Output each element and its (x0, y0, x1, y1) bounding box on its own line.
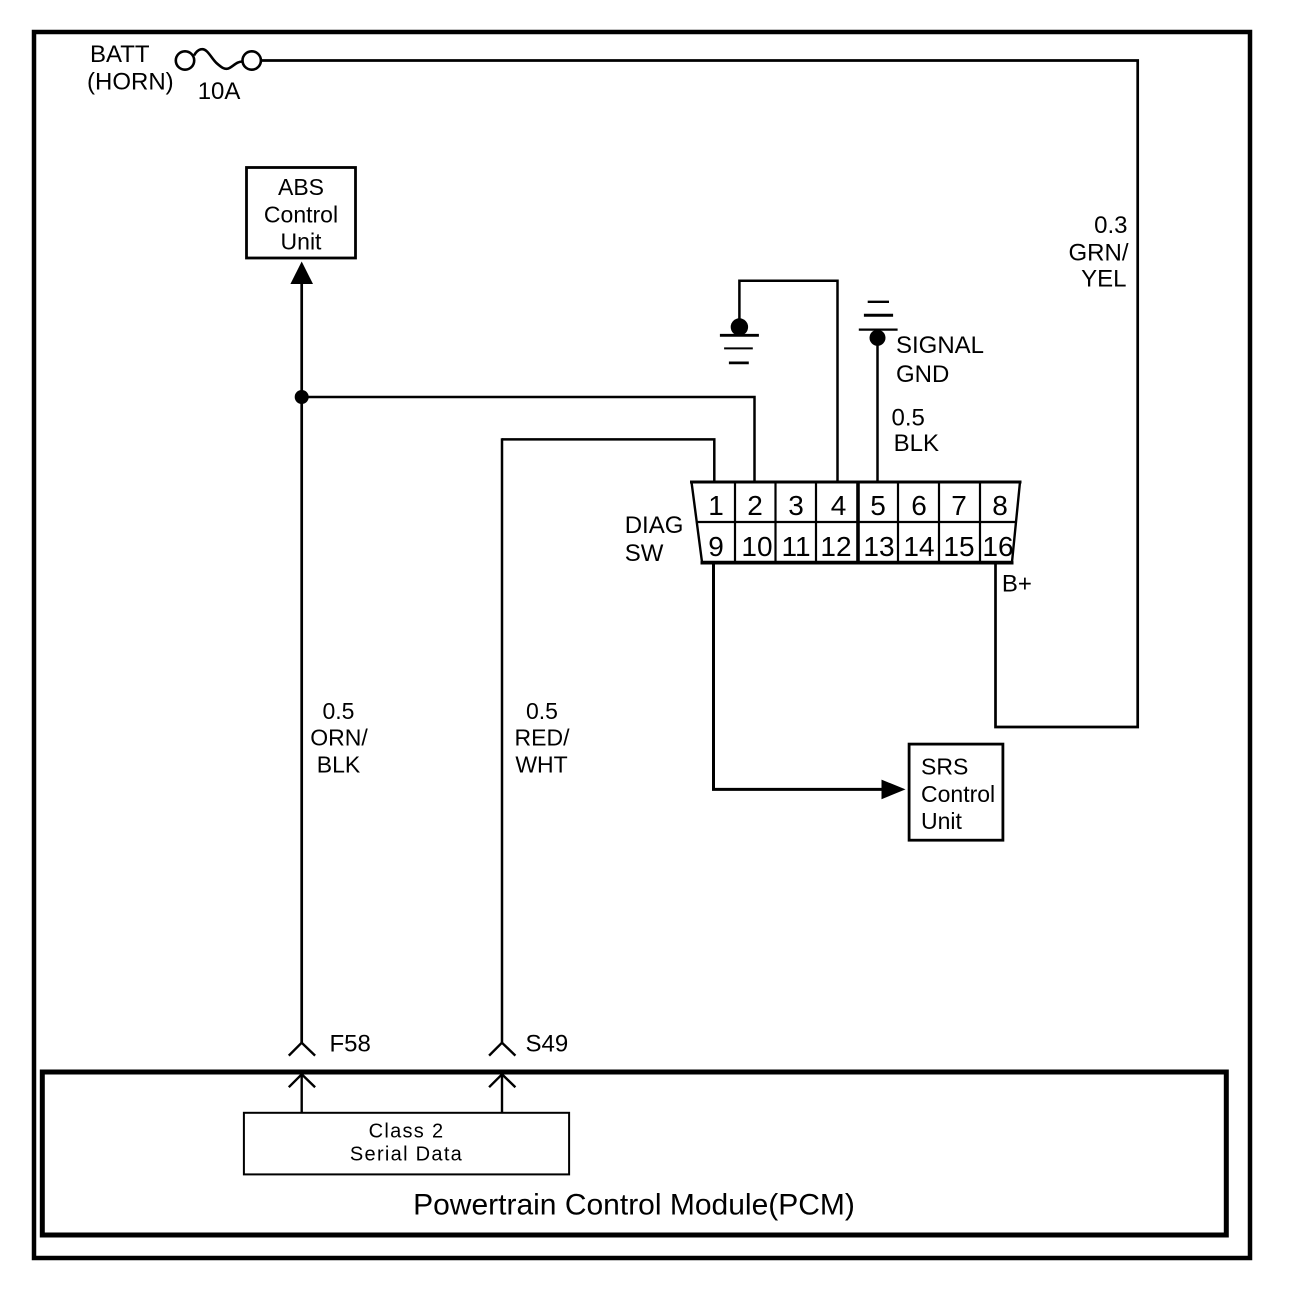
svg-text:BLK: BLK (894, 430, 939, 457)
svg-text:Serial Data: Serial Data (350, 1144, 463, 1166)
wire fuse to GRN/YEL down right side and to pin16 (B+) (261, 61, 1138, 728)
pin numbers 1-8 (708, 490, 1008, 521)
fuse F 10A (176, 49, 261, 70)
svg-text:7: 7 (951, 490, 967, 521)
label 0.5 ORN/BLK (310, 698, 368, 778)
PCM box (42, 1072, 1226, 1235)
Class 2 Serial Data box (244, 1113, 569, 1175)
svg-text:DIAG: DIAG (625, 512, 684, 539)
arrow into SRS (882, 780, 906, 800)
svg-text:9: 9 (708, 531, 724, 562)
svg-text:SIGNAL: SIGNAL (896, 332, 984, 359)
svg-text:Unit: Unit (921, 808, 963, 834)
svg-text:GND: GND (896, 361, 949, 388)
svg-text:ABS: ABS (278, 174, 324, 200)
svg-text:8: 8 (992, 490, 1008, 521)
svg-text:GRN/: GRN/ (1069, 240, 1129, 267)
svg-text:Powertrain Control Module(PCM): Powertrain Control Module(PCM) (413, 1189, 855, 1222)
svg-text:10A: 10A (198, 78, 241, 105)
svg-text:S49: S49 (526, 1031, 569, 1058)
svg-text:5: 5 (870, 490, 886, 521)
svg-text:B+: B+ (1002, 571, 1032, 598)
connector DLC trapezoid (690, 482, 1022, 563)
wire RED/WHT vertical (501, 438, 504, 1042)
ground G1 (720, 318, 759, 363)
svg-text:SRS: SRS (921, 753, 968, 779)
svg-text:SW: SW (625, 540, 664, 567)
svg-text:Control: Control (264, 201, 338, 227)
svg-text:12: 12 (820, 531, 851, 562)
wire junction to pin2 (302, 397, 755, 482)
connector S49 fork (489, 1043, 515, 1056)
svg-text:6: 6 (911, 490, 927, 521)
svg-text:16: 16 (982, 531, 1013, 562)
svg-text:13: 13 (863, 531, 894, 562)
connector F58 fork (289, 1043, 315, 1056)
connector S49 mate caret (489, 1074, 515, 1113)
arrow into ABS (290, 262, 313, 285)
svg-text:BLK: BLK (317, 752, 361, 778)
label 0.5 BLK (892, 404, 939, 457)
svg-text:15: 15 (943, 531, 974, 562)
ABS Control Unit box (247, 168, 356, 259)
wire ORN/BLK vertical (300, 283, 303, 1043)
svg-text:F58: F58 (330, 1031, 371, 1058)
svg-text:Control: Control (921, 781, 995, 807)
svg-text:BATT: BATT (90, 41, 150, 68)
junction node (295, 390, 309, 404)
ground G2 signal gnd (859, 302, 898, 346)
label DIAG SW (625, 512, 684, 567)
svg-text:0.3: 0.3 (1094, 212, 1127, 239)
svg-text:11: 11 (781, 531, 810, 562)
svg-text:RED/: RED/ (515, 725, 571, 751)
svg-text:14: 14 (903, 531, 934, 562)
svg-text:WHT: WHT (515, 752, 567, 778)
svg-text:0.5: 0.5 (323, 698, 355, 724)
svg-text:ORN/: ORN/ (310, 725, 368, 751)
svg-text:1: 1 (708, 490, 724, 521)
SRS Control Unit box (909, 744, 1003, 840)
label BATT (HORN) (87, 41, 174, 96)
svg-text:Unit: Unit (281, 229, 323, 255)
svg-text:3: 3 (788, 490, 804, 521)
svg-text:4: 4 (831, 490, 847, 521)
svg-text:(HORN): (HORN) (87, 69, 174, 96)
wire pin5 to signal ground (876, 338, 879, 482)
svg-text:10: 10 (741, 531, 772, 562)
pin numbers 9-16 (708, 531, 1013, 562)
svg-text:YEL: YEL (1081, 266, 1126, 293)
label SIGNAL GND (896, 332, 984, 388)
svg-text:0.5: 0.5 (526, 698, 558, 724)
wire pin4 to ground (739, 281, 837, 482)
wire pin9 to SRS (714, 563, 883, 789)
connector F58 mate caret (289, 1074, 315, 1113)
label 0.3 GRN/YEL (1069, 212, 1129, 293)
svg-text:Class 2: Class 2 (369, 1120, 445, 1142)
svg-text:2: 2 (747, 490, 763, 521)
label 0.5 RED/WHT (515, 698, 571, 778)
svg-text:0.5: 0.5 (892, 404, 925, 431)
wire RED/WHT to pin1 (502, 439, 714, 482)
